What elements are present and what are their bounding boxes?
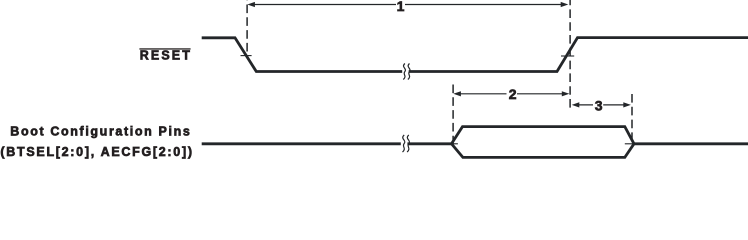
arrowhead 1 right	[561, 2, 569, 7]
svg-text:(BTSEL[2:0], AECFG[2:0]): (BTSEL[2:0], AECFG[2:0])	[0, 145, 192, 159]
dashed line at RESET falling edge (x=246.8)	[246, 0, 248, 56]
break symbol on RESET low line	[402, 64, 410, 80]
RESET waveform low segment right and rising edge	[409, 38, 748, 72]
dashed line at RESET rising edge / boot pins valid (x=568.8)	[569, 0, 571, 111]
arrowhead 2 right	[562, 91, 570, 96]
dimension arrow 1 line (right part)	[405, 4, 564, 6]
dimension arrow 1 line (left part)	[252, 4, 396, 6]
dashed line at bus close (x=632)	[631, 94, 633, 144]
dimension arrow 3 line (left part)	[577, 104, 594, 106]
tick at bus open	[447, 143, 458, 145]
overline of RESET	[139, 48, 190, 49]
dimension arrow 2 line (left part)	[459, 93, 507, 95]
dimension arrow 2 line (right part)	[517, 93, 565, 95]
arrowhead 3 left	[572, 102, 580, 107]
svg-text:3: 3	[595, 97, 603, 113]
tick at RESET falling edge 50%	[241, 55, 252, 57]
arrowhead 1 left	[247, 2, 255, 7]
Boot Configuration Pins bus idle line (right of break)	[407, 142, 451, 145]
Boot Configuration Pins bus idle line (left of break)	[202, 142, 401, 145]
bus valid window hexagon	[452, 127, 635, 158]
RESET waveform high segment left	[202, 38, 403, 72]
arrowhead 2 left	[453, 91, 461, 96]
bus line after close	[634, 142, 748, 145]
dimension arrow 3 line (right part)	[603, 104, 626, 106]
tick at bus close	[625, 143, 636, 145]
svg-text:1: 1	[397, 0, 405, 14]
arrowhead 3 right	[623, 102, 631, 107]
svg-text:RESET: RESET	[140, 49, 191, 63]
svg-text:2: 2	[509, 86, 517, 102]
dashed line at bus open (x=453)	[452, 85, 454, 147]
svg-text:Boot Configuration Pins: Boot Configuration Pins	[10, 125, 190, 139]
tick at RESET rising edge 50%	[561, 55, 574, 57]
break symbol on bus idle line	[402, 135, 410, 152]
